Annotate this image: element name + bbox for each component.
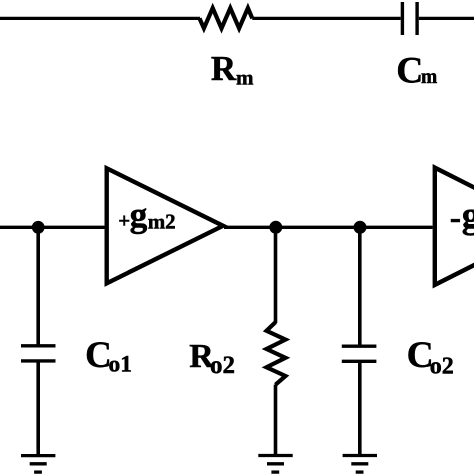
wire node1 down	[36, 227, 40, 345]
wire node2 down	[274, 227, 278, 323]
wire Co2 to ground	[358, 361, 362, 455]
wire mid-right	[224, 226, 433, 229]
ground 1	[21, 454, 55, 457]
svg-text:-: -	[450, 200, 461, 237]
svg-text:m: m	[236, 65, 254, 89]
wire Ro2 to ground	[274, 385, 278, 456]
svg-text:o2: o2	[430, 353, 454, 379]
wire top-left	[0, 17, 200, 20]
svg-text:o1: o1	[109, 352, 133, 378]
svg-text:C: C	[396, 51, 423, 92]
wire top-middle	[252, 17, 400, 20]
ground 2	[258, 454, 292, 457]
svg-text:R: R	[211, 49, 237, 88]
svg-text:o2: o2	[210, 352, 235, 379]
resistor Rm	[200, 8, 253, 28]
node dot 2	[269, 221, 282, 234]
wire top-right	[419, 17, 474, 20]
svg-text:+: +	[118, 208, 130, 232]
capacitor Co2	[342, 345, 377, 348]
wire node3 down	[358, 227, 362, 346]
svg-text:g: g	[462, 196, 474, 237]
node dot 1	[32, 221, 45, 234]
ground 3	[343, 454, 377, 457]
capacitor Co1	[21, 344, 56, 347]
op-amp gm3 (clipped at right edge)	[435, 168, 474, 285]
resistor Ro2	[267, 322, 286, 385]
wire Co1 to ground	[36, 361, 40, 456]
svg-text:g: g	[130, 194, 148, 234]
svg-text:m2: m2	[148, 209, 176, 233]
node dot 3	[354, 221, 367, 234]
capacitor Cm	[401, 2, 404, 35]
op-amp gm2	[107, 168, 223, 283]
svg-text:m: m	[421, 67, 437, 88]
wire mid-left	[0, 226, 107, 229]
